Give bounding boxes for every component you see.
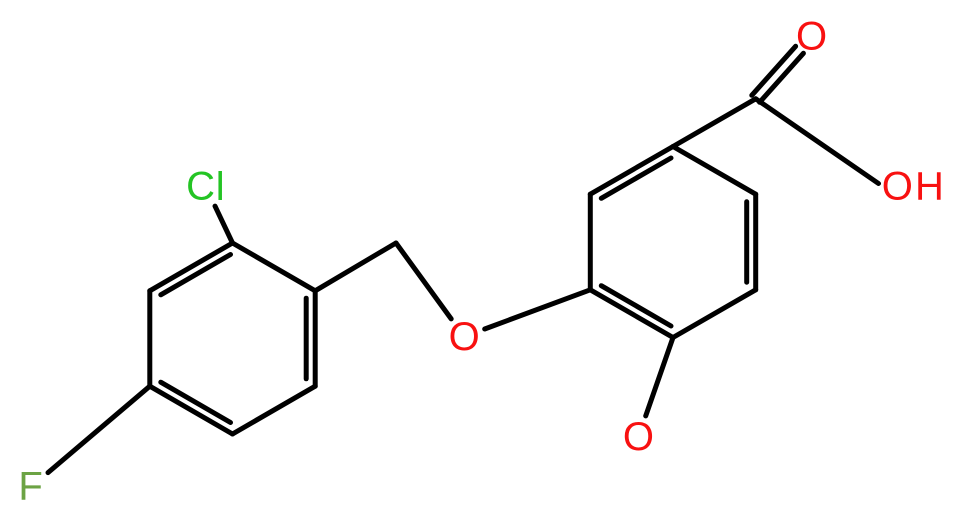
bond CH2-O ether [396,243,451,319]
left ring bond C6-C5 (left edge) [147,291,152,386]
bond C2-CH2 (benzylic) [315,243,396,291]
bond C5-F [48,386,150,472]
left ring inner double bond C1-C6 [161,255,231,295]
right ring inner double bond C2'-C3' [744,202,749,282]
right ring inner double bond C4'-C5' [601,286,671,326]
left ring inner double bond C4-C5 [161,382,231,422]
right ring bond C1'-C6' (top-left edge) [590,147,673,195]
right ring inner double bond C1'-C6' [601,158,671,198]
svg-text:C: C [186,165,215,209]
bond C1'-COOH carbon [673,99,756,147]
bond COOH C-OH [756,99,879,184]
right ring bond C4'-C3' (bottom-right edge) [673,290,756,338]
bond C4'-O carbonyl-lower [646,338,673,416]
left ring bond C4-C3 (bottom-right edge) [233,386,316,434]
svg-text:H: H [915,164,944,208]
left ring bond C3-C2 (right-lower edge) [313,291,318,386]
right ring bond C6'-C5' (left edge) [588,194,593,290]
bond O ether-C5' [485,290,591,329]
right ring bond C3'-C2' (right edge) [753,194,758,290]
right ring bond C2'-C1' (top-right edge) [673,147,756,195]
svg-text:F: F [18,465,42,509]
bond C1-Cl [215,206,233,243]
left ring bond C2-C1 (top-right edge) [233,243,316,291]
left ring bond C5-C4 (bottom-left edge) [150,386,233,434]
svg-text:O: O [449,315,480,359]
left ring bond C1-C6 (top-left edge) [150,243,233,291]
C=O double bond line 1 [752,46,796,95]
svg-text:O: O [882,165,913,209]
svg-text:O: O [623,415,654,459]
right ring bond C5'-C4' (bottom-left edge) [590,290,673,338]
C=O double bond line 2 [760,53,804,102]
svg-text:l: l [216,165,225,209]
left ring inner double bond C2-C3 [304,298,309,379]
svg-text:O: O [796,15,827,59]
